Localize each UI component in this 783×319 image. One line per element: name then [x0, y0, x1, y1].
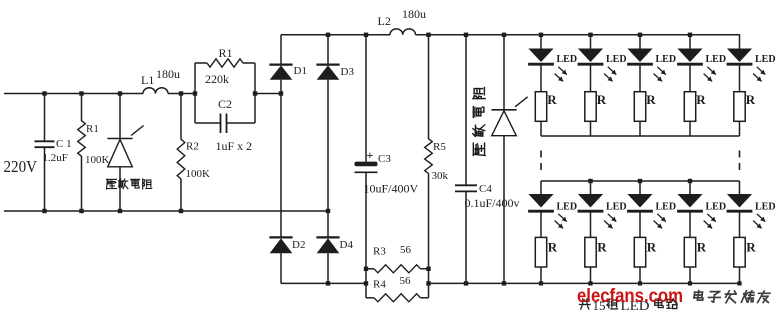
svg-text:56: 56	[400, 275, 412, 287]
svg-text:R: R	[697, 240, 707, 255]
svg-text:R5: R5	[433, 141, 446, 153]
svg-text:LED: LED	[755, 54, 776, 65]
svg-text:R: R	[646, 92, 656, 107]
svg-text:LED: LED	[606, 54, 627, 65]
svg-text:R: R	[696, 92, 706, 107]
svg-text:1.2uF: 1.2uF	[43, 152, 68, 164]
svg-text:LED: LED	[557, 54, 578, 65]
svg-text:L2: L2	[378, 14, 391, 28]
svg-text:+: +	[367, 148, 374, 162]
svg-text:100K: 100K	[186, 168, 211, 180]
svg-text:R: R	[746, 92, 756, 107]
svg-text:L1: L1	[141, 73, 154, 87]
svg-text:220V: 220V	[4, 157, 38, 176]
svg-text:R4: R4	[373, 279, 386, 291]
svg-text:R1: R1	[86, 123, 99, 135]
svg-text:LED: LED	[706, 54, 727, 65]
svg-text:D1: D1	[294, 65, 307, 77]
svg-text:D3: D3	[341, 66, 355, 78]
svg-text:R3: R3	[373, 246, 386, 258]
svg-text:R: R	[548, 240, 558, 255]
svg-text:elecfans.com: elecfans.com	[577, 286, 683, 307]
svg-text:R: R	[597, 240, 607, 255]
svg-text:R2: R2	[186, 141, 199, 153]
svg-text:30k: 30k	[432, 170, 449, 182]
svg-text:100K: 100K	[85, 154, 110, 166]
svg-text:C3: C3	[378, 153, 391, 165]
svg-text:C4: C4	[479, 183, 492, 195]
svg-text:220k: 220k	[205, 72, 229, 86]
svg-text:0.1uF/400v: 0.1uF/400v	[465, 196, 520, 210]
svg-text:LED: LED	[706, 202, 727, 213]
svg-text:C 1: C 1	[56, 138, 72, 150]
svg-text:10uF/400V: 10uF/400V	[364, 182, 419, 196]
svg-text:LED: LED	[656, 202, 677, 213]
svg-text:LED: LED	[656, 54, 677, 65]
svg-text:D2: D2	[292, 239, 305, 251]
svg-text:R1: R1	[219, 46, 233, 60]
svg-text:180u: 180u	[402, 7, 426, 21]
svg-text:R: R	[547, 92, 557, 107]
svg-text:R: R	[597, 92, 607, 107]
svg-text:LED: LED	[606, 202, 627, 213]
svg-text:D4: D4	[340, 239, 354, 251]
svg-text:56: 56	[400, 244, 412, 256]
svg-text:LED: LED	[557, 202, 578, 213]
svg-text:LED: LED	[755, 202, 776, 213]
svg-text:R: R	[746, 240, 756, 255]
svg-text:180u: 180u	[156, 67, 180, 81]
svg-text:R: R	[647, 240, 657, 255]
svg-text:C2: C2	[218, 97, 232, 111]
svg-text:1uF x 2: 1uF x 2	[216, 139, 253, 153]
